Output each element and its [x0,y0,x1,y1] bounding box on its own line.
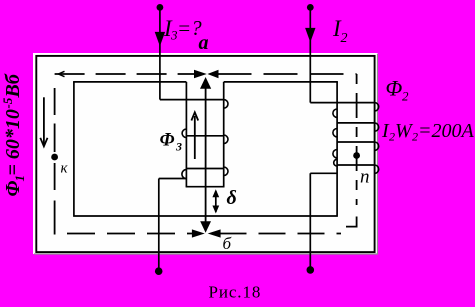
window bottom edge [73,215,338,217]
flux path dash top horizontal right part [218,73,357,75]
coil W2 left arc 2 [333,129,337,137]
svg-text:б: б [223,234,232,253]
coil W2 left arc 4 [334,159,337,166]
svg-text:2: 2 [341,31,348,46]
flux path dash right vertical [356,74,358,205]
wire I2 vertical top [309,7,311,102]
coil W3 exit wire horizontal [159,178,187,180]
svg-text:к: к [61,161,69,177]
flux direction barb on top dash [59,71,65,76]
middle limb bottom edge (air gap top) [186,186,225,188]
middle limb center flux line [205,86,207,225]
coil W2 exit wire horizontal [310,172,337,174]
coil W3 right arc 1 [224,100,228,109]
current I3 arrow head [155,32,165,46]
flux path dash left vertical [54,88,56,235]
svg-text:=200A: =200A [418,120,474,142]
coil W2 left arc 3 [333,150,337,158]
white plate [33,53,378,254]
coil W3 right arc 3 [224,167,228,176]
flux phi1 direction arrow head [40,138,47,147]
wire I2 vertical bottom [309,173,311,268]
phi3 arrow head [191,112,198,120]
coil W3 left arc 2 [182,170,187,179]
terminal dot top wire I3 [157,4,164,11]
terminal dot top wire I2 [307,4,314,11]
svg-text:n: n [360,167,370,188]
svg-text:-5: -5 [0,97,15,108]
window left edge [73,82,75,216]
coil W3 turn 2 [186,135,223,137]
middle limb left edge [185,82,187,187]
wire I3 vertical bottom [158,179,160,271]
coil W2 turn 4 [337,164,374,166]
window right edge [336,82,338,216]
current I2 arrow head [305,28,315,42]
air gap delta arrow head up [212,189,219,197]
flux path dash right bottom corner [346,217,357,227]
coil W3 left arc 1 [182,129,186,138]
svg-text:Φ: Φ [160,130,175,151]
flux phi1 direction arrow shaft [43,97,45,146]
svg-text:Φ: Φ [2,181,24,197]
flux path dash top horizontal left part [55,73,197,75]
coil W3 right arc 2 [224,135,228,144]
core outer rectangle [36,56,374,252]
flux arrow left (bottom yoke, from right) [208,229,221,237]
window top edge left part [73,81,186,83]
svg-text:Рис.18: Рис.18 [209,283,262,302]
coil W2 left arc 1 [333,109,337,117]
svg-text:Вб: Вб [2,73,24,98]
terminal dot bottom wire I2 [307,266,315,274]
air gap delta arrow shaft [215,191,217,212]
label Phi1 rotated [0,73,27,196]
coil W2 right arc 1 [375,103,379,111]
flux path dash bottom horizontal left part [67,233,193,235]
phi3 arrow shaft [194,116,196,159]
flux arrow right (bottom yoke, from left) [192,229,205,237]
svg-text:3: 3 [175,140,182,154]
coil W2 right arc 2 [375,123,379,131]
coil W2 turn 2 [337,122,374,124]
middle limb flux arrow up (top) [200,77,211,89]
middle limb flux arrow down (bottom) [200,221,211,232]
svg-text:= 60*10: = 60*10 [2,109,24,175]
plate shadow [34,54,378,254]
coil W3 turn 1 [160,99,224,101]
node n dot [353,152,360,159]
flux arrow left (top yoke, from right) [207,70,218,78]
air gap delta arrow head down [212,206,219,214]
flux path dash bottom horizontal right part [220,233,342,235]
terminal dot bottom wire I3 [155,267,163,275]
coil W2 right arc 3 [375,142,379,150]
svg-text:Φ: Φ [386,76,403,101]
coil W3 turn 3 [186,168,223,170]
coil W2 turn 1 [310,102,374,104]
svg-text:2: 2 [402,89,409,104]
wire I3 vertical top [159,7,161,99]
coil W2 turn 3 [337,141,374,143]
window top edge right part [224,81,338,83]
svg-text:a: a [199,32,209,54]
coil W2 right arc 4 [375,165,379,173]
svg-text:δ: δ [227,187,237,209]
node k dot [51,154,58,161]
flux arrow right (top yoke, from left) [194,70,207,78]
middle limb right edge [223,82,225,187]
